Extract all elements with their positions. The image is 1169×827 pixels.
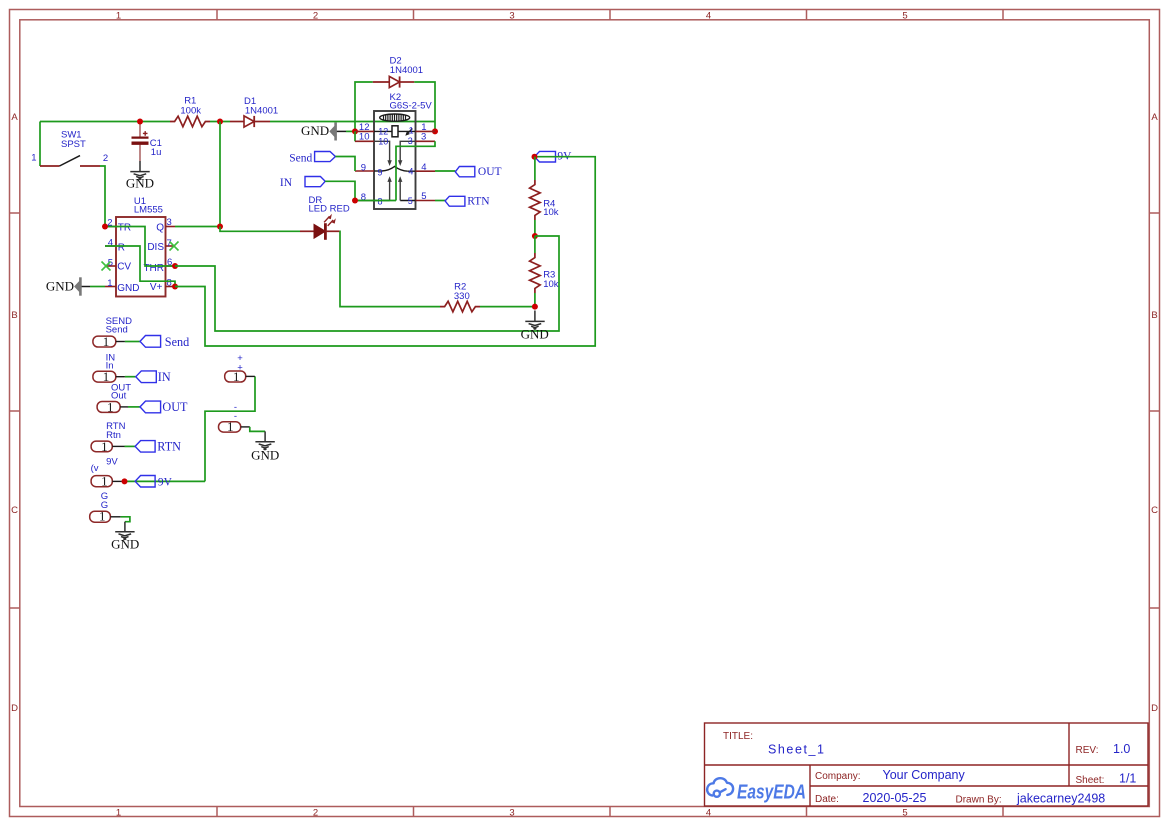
port SEND <box>93 316 189 349</box>
wire R to V+ through U1 <box>105 246 175 287</box>
net flag Send at relay <box>289 152 335 165</box>
svg-text:Rtn: Rtn <box>106 430 121 441</box>
wire relay pin12 junction to pin10 <box>354 131 356 141</box>
svg-text:CV: CV <box>117 262 131 273</box>
svg-text:4: 4 <box>408 166 413 176</box>
svg-text:GND: GND <box>251 447 279 462</box>
svg-text:12: 12 <box>378 127 388 137</box>
power flag GND at U1 pin1 <box>46 277 105 295</box>
svg-text:1: 1 <box>103 334 110 349</box>
svg-text:10k: 10k <box>543 207 559 218</box>
wire main top rail <box>40 122 435 132</box>
svg-text:9V: 9V <box>106 457 118 468</box>
EasyEDA logo <box>707 778 806 803</box>
net flag RTN <box>435 195 490 207</box>
svg-text:GND: GND <box>117 283 139 294</box>
svg-text:330: 330 <box>454 291 470 302</box>
wire Q to LED node <box>175 122 220 227</box>
capacitor C1 <box>132 122 162 162</box>
U1 pin 7 DIS <box>147 238 175 253</box>
U1 pin 3 Q <box>156 217 175 234</box>
node junction U1 TR <box>102 224 108 230</box>
svg-text:1: 1 <box>31 153 36 164</box>
svg-text:2: 2 <box>313 11 318 22</box>
resistor R1 <box>170 96 210 127</box>
svg-text:A: A <box>11 112 18 123</box>
U1 pin 5 CV <box>105 257 131 272</box>
svg-text:GND: GND <box>111 536 139 551</box>
relay K2 pin 12 <box>355 122 392 136</box>
svg-text:1: 1 <box>409 126 414 136</box>
node junction U1 V+ <box>172 284 178 290</box>
no-connect X on DIS <box>170 242 179 251</box>
wire LED cathode to R2 <box>340 231 440 306</box>
svg-text:1: 1 <box>227 419 234 434</box>
svg-text:3: 3 <box>509 11 514 22</box>
ground GND at port G <box>115 522 134 540</box>
svg-text:1: 1 <box>99 509 106 524</box>
svg-text:RTN: RTN <box>467 195 490 207</box>
port battery plus <box>225 353 255 384</box>
svg-text:1.0: 1.0 <box>1113 742 1130 756</box>
svg-text:3: 3 <box>167 217 172 228</box>
svg-text:2: 2 <box>313 807 318 818</box>
relay K2 pole contacts 9-4 <box>355 162 435 177</box>
svg-text:1/1: 1/1 <box>1119 772 1136 786</box>
node junction 9V port <box>122 478 128 484</box>
port RTN <box>91 421 181 454</box>
svg-text:(v: (v <box>91 463 99 474</box>
svg-text:1: 1 <box>116 807 121 818</box>
relay K2 pins 8-5 row <box>355 191 435 207</box>
ground GND at battery minus <box>255 431 274 449</box>
svg-text:LED RED: LED RED <box>309 203 350 214</box>
wire IN to relay pin8 <box>325 181 355 200</box>
svg-text:D: D <box>11 703 18 714</box>
node junction divider mid <box>532 233 538 239</box>
switch SW1 <box>31 130 108 167</box>
svg-text:3: 3 <box>408 136 413 146</box>
svg-text:5: 5 <box>408 196 413 206</box>
svg-text:SPST: SPST <box>61 139 86 150</box>
port G <box>90 491 130 524</box>
net flag 9V right <box>535 151 573 163</box>
svg-text:5: 5 <box>902 807 907 818</box>
LED DR <box>300 195 350 240</box>
U1 pin 1 GND <box>105 278 139 294</box>
svg-text:4: 4 <box>706 11 711 22</box>
net flag OUT <box>435 166 502 178</box>
node junction R1 right <box>217 119 223 125</box>
svg-text:4: 4 <box>421 162 426 173</box>
svg-text:3: 3 <box>421 131 426 142</box>
resistor R4 <box>530 180 559 220</box>
wire 9V port to battery plus <box>205 376 255 481</box>
svg-text:RTN: RTN <box>157 440 181 454</box>
diode D2 <box>373 55 423 87</box>
node junction relay pin12 <box>352 128 358 134</box>
svg-text:D: D <box>1151 703 1158 714</box>
svg-text:Drawn By:: Drawn By: <box>956 795 1002 806</box>
svg-text:OUT: OUT <box>478 166 502 178</box>
svg-text:C: C <box>11 505 18 516</box>
svg-text:LM555: LM555 <box>134 205 163 216</box>
wire D2 flyback loop <box>355 82 435 131</box>
svg-text:5: 5 <box>421 191 426 202</box>
no-connect X on CV <box>102 262 111 271</box>
svg-text:DIS: DIS <box>147 242 164 253</box>
svg-text:EasyEDA: EasyEDA <box>737 780 806 803</box>
svg-text:1N4001: 1N4001 <box>390 65 423 76</box>
svg-text:1N4001: 1N4001 <box>245 106 278 117</box>
port OUT <box>97 383 188 415</box>
wire SW1 pin2 to U1 TR <box>100 166 105 227</box>
svg-text:5: 5 <box>902 11 907 22</box>
wire divider mid to R3 <box>534 236 536 253</box>
node junction relay pin1 <box>432 128 438 134</box>
svg-text:Company:: Company: <box>815 771 861 782</box>
svg-text:9: 9 <box>361 162 366 173</box>
svg-text:OUT: OUT <box>162 400 188 414</box>
svg-text:1: 1 <box>103 369 110 384</box>
svg-text:Send: Send <box>165 335 189 349</box>
svg-text:8: 8 <box>378 197 383 207</box>
svg-text:C: C <box>1151 505 1158 516</box>
wire TR to THR through U1 <box>105 227 175 267</box>
svg-text:TR: TR <box>118 223 131 234</box>
wire 9V rail to V+ <box>175 157 595 346</box>
node junction U1 THR <box>172 263 178 269</box>
wire 9V to R4 <box>534 157 536 180</box>
svg-text:V+: V+ <box>150 282 163 293</box>
node junction C1 top <box>137 119 143 125</box>
svg-text:1u: 1u <box>151 147 162 158</box>
svg-text:100k: 100k <box>180 105 201 116</box>
node junction relay pin8 <box>352 198 358 204</box>
wire R2 to divider bottom <box>480 306 535 308</box>
U1 pin 6 THR <box>143 257 175 274</box>
svg-text:Sheet:: Sheet: <box>1076 775 1105 786</box>
svg-text:GND: GND <box>46 279 74 294</box>
svg-text:G6S-2-5V: G6S-2-5V <box>390 100 433 111</box>
svg-text:A: A <box>1151 112 1158 123</box>
U1 pin 2 TR <box>105 217 131 233</box>
diode D1 <box>230 96 278 127</box>
node junction 9V flag <box>532 154 538 160</box>
net flag IN at relay <box>280 177 325 190</box>
ground GND at R3 <box>525 311 544 330</box>
svg-text:Date:: Date: <box>815 794 839 805</box>
port IN <box>93 353 171 385</box>
svg-text:9V: 9V <box>158 477 173 489</box>
node junction Q output <box>217 224 223 230</box>
svg-text:4: 4 <box>706 807 711 818</box>
svg-text:1: 1 <box>101 474 108 489</box>
port 9V <box>91 457 205 489</box>
svg-text:3: 3 <box>509 807 514 818</box>
svg-text:1: 1 <box>101 439 108 454</box>
svg-text:10: 10 <box>359 132 370 143</box>
svg-text:GND: GND <box>521 327 549 342</box>
op-amp U1 LM555 body <box>116 196 166 296</box>
wire R4 to divider mid <box>534 220 536 236</box>
svg-text:-: - <box>234 411 237 422</box>
node junction R2 R3 ground <box>532 304 538 310</box>
svg-text:B: B <box>11 310 17 321</box>
svg-text:GND: GND <box>301 123 329 138</box>
svg-text:2020-05-25: 2020-05-25 <box>863 791 927 805</box>
port battery minus <box>219 402 266 434</box>
svg-text:9: 9 <box>378 167 383 177</box>
relay K2 pin 1 <box>398 122 435 136</box>
relay K2 actuator arrows <box>387 176 402 200</box>
svg-text:2: 2 <box>103 153 108 164</box>
svg-text:REV:: REV: <box>1076 745 1099 756</box>
svg-text:10: 10 <box>378 137 388 147</box>
wire relay pin3 to pin8 <box>355 141 435 200</box>
svg-text:IN: IN <box>158 370 171 384</box>
resistor R2 <box>440 281 480 311</box>
resistor R3 <box>530 253 559 293</box>
wire divider mid to THR <box>175 236 559 331</box>
svg-text:THR: THR <box>143 263 164 274</box>
relay K2 body <box>374 92 432 209</box>
relay K2 pin 10 <box>355 132 392 167</box>
svg-text:Q: Q <box>156 223 164 234</box>
svg-text:1: 1 <box>233 369 240 384</box>
svg-text:1: 1 <box>107 278 112 289</box>
svg-text:10k: 10k <box>543 279 559 290</box>
svg-text:1: 1 <box>116 11 121 22</box>
relay K2 pin 3 <box>398 131 435 166</box>
svg-text:jakecarney2498: jakecarney2498 <box>1016 792 1105 806</box>
power flag GND at relay coil <box>301 123 355 141</box>
svg-text:B: B <box>1151 310 1157 321</box>
svg-text:IN: IN <box>280 177 293 189</box>
U1 pin 8 V+ <box>150 277 175 293</box>
title block texts <box>723 731 1136 806</box>
svg-text:GND: GND <box>126 176 154 191</box>
svg-text:Your Company: Your Company <box>883 768 966 782</box>
svg-text:1: 1 <box>107 399 114 414</box>
ground GND at C1 <box>130 161 149 179</box>
wire battery drop to SW1 <box>39 122 41 167</box>
title block <box>705 723 1149 806</box>
svg-text:Send: Send <box>289 153 312 165</box>
U1 pin 4 R <box>105 237 125 253</box>
wire Q node down to LED anode <box>220 227 300 232</box>
wire Send to relay pin9 <box>335 157 355 172</box>
svg-text:TITLE:: TITLE: <box>723 731 753 742</box>
wire R3 to ground node <box>534 293 536 307</box>
svg-text:R: R <box>118 243 125 254</box>
svg-text:8: 8 <box>167 277 172 288</box>
